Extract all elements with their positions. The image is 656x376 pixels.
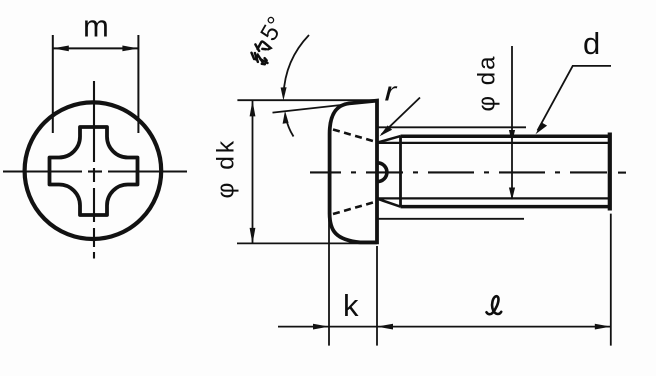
phi-da dimension line: [511, 46, 513, 200]
recess hidden line bottom (side view): [333, 202, 377, 215]
angle leader arc upper with arrow: [284, 35, 310, 95]
thread start line: [399, 136, 402, 207]
svg-text:φ dk: φ dk: [213, 138, 240, 199]
5deg inclined head-top line: [273, 101, 378, 113]
shaft end face: [608, 133, 612, 211]
head outline circle (plan view): [25, 102, 162, 239]
vertical center line (plan view): [93, 81, 95, 259]
k dimension leader from outside with arrow: [278, 326, 329, 328]
thread runout taper top (under-head): [378, 136, 401, 142]
ell dimension right arrow: [595, 324, 611, 330]
angle leader lower with arrow: [285, 116, 293, 137]
ell extension line right (shaft end): [610, 214, 612, 346]
phillips cross recess outline (plan view): [50, 127, 138, 215]
r leader line with arrow: [382, 98, 421, 135]
svg-text:d: d: [583, 26, 600, 61]
k extension line right / ell extension left (bearing face): [376, 246, 378, 346]
svg-text:φ da: φ da: [474, 55, 501, 112]
thread crest top: [401, 134, 609, 138]
horizontal center line (plan view): [3, 170, 187, 172]
recess tip semicircle on bearing face: [378, 163, 387, 182]
thread runout taper bottom: [378, 199, 401, 207]
d leader line with arrow: [538, 66, 612, 131]
pan head outline (side view): [330, 101, 377, 243]
svg-text:r: r: [385, 77, 399, 106]
5deg reference horizontal line: [237, 99, 378, 101]
svg-text:k: k: [343, 288, 359, 323]
label ell (script): [487, 296, 502, 314]
thread root top: [378, 142, 609, 144]
k extension line left (crown apex): [328, 216, 330, 346]
screw axis center line (side view): [310, 171, 626, 173]
svg-text:5°: 5°: [255, 12, 290, 45]
phi-dk dimension line with arrows: [252, 101, 254, 243]
label 約 (kanji, rotated annotation): [249, 39, 276, 66]
k/ell shared arrow pointing left at face extension: [329, 326, 611, 328]
svg-text:m: m: [83, 9, 109, 44]
phi-dk extension bottom line: [237, 242, 377, 244]
thread crest bottom: [401, 205, 609, 209]
m dimension line with arrows: [53, 47, 139, 49]
thread root bottom: [378, 197, 609, 199]
recess hidden line top (side view): [333, 130, 377, 143]
phi-da extension top line: [377, 126, 526, 128]
phi-da extension bottom line: [377, 218, 524, 220]
m dimension extension lines: [52, 35, 54, 133]
